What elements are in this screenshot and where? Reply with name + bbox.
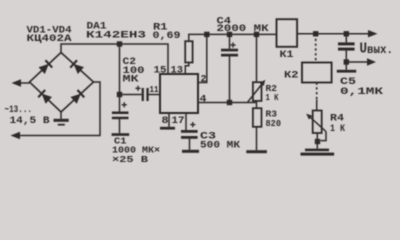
svg-text:×25 В: ×25 В [112, 154, 148, 165]
svg-text:0,69: 0,69 [153, 30, 181, 42]
svg-text:1 К: 1 К [330, 123, 346, 135]
svg-text:вых.: вых. [367, 44, 393, 57]
svg-text:8: 8 [162, 116, 169, 127]
svg-text:14,5 В: 14,5 В [10, 116, 50, 127]
svg-text:К142ЕН3: К142ЕН3 [86, 30, 146, 42]
svg-text:~13...: ~13... [5, 105, 33, 116]
svg-text:2000 МК: 2000 МК [217, 23, 270, 35]
svg-text:U: U [360, 41, 368, 58]
svg-text:820: 820 [266, 118, 282, 129]
svg-text:К2: К2 [284, 70, 299, 82]
svg-text:МК: МК [123, 74, 140, 86]
svg-text:500 МК: 500 МК [200, 140, 241, 152]
svg-text:13: 13 [171, 65, 184, 77]
svg-text:К1: К1 [280, 49, 294, 61]
svg-text:2: 2 [201, 75, 207, 86]
svg-text:15: 15 [154, 65, 167, 77]
svg-text:0,1МК: 0,1МК [340, 86, 384, 98]
svg-text:17: 17 [172, 116, 185, 127]
svg-text:КЦ402А: КЦ402А [27, 33, 73, 45]
svg-text:4: 4 [200, 95, 207, 106]
svg-text:11: 11 [150, 84, 159, 95]
svg-text:1 К: 1 К [266, 92, 279, 103]
